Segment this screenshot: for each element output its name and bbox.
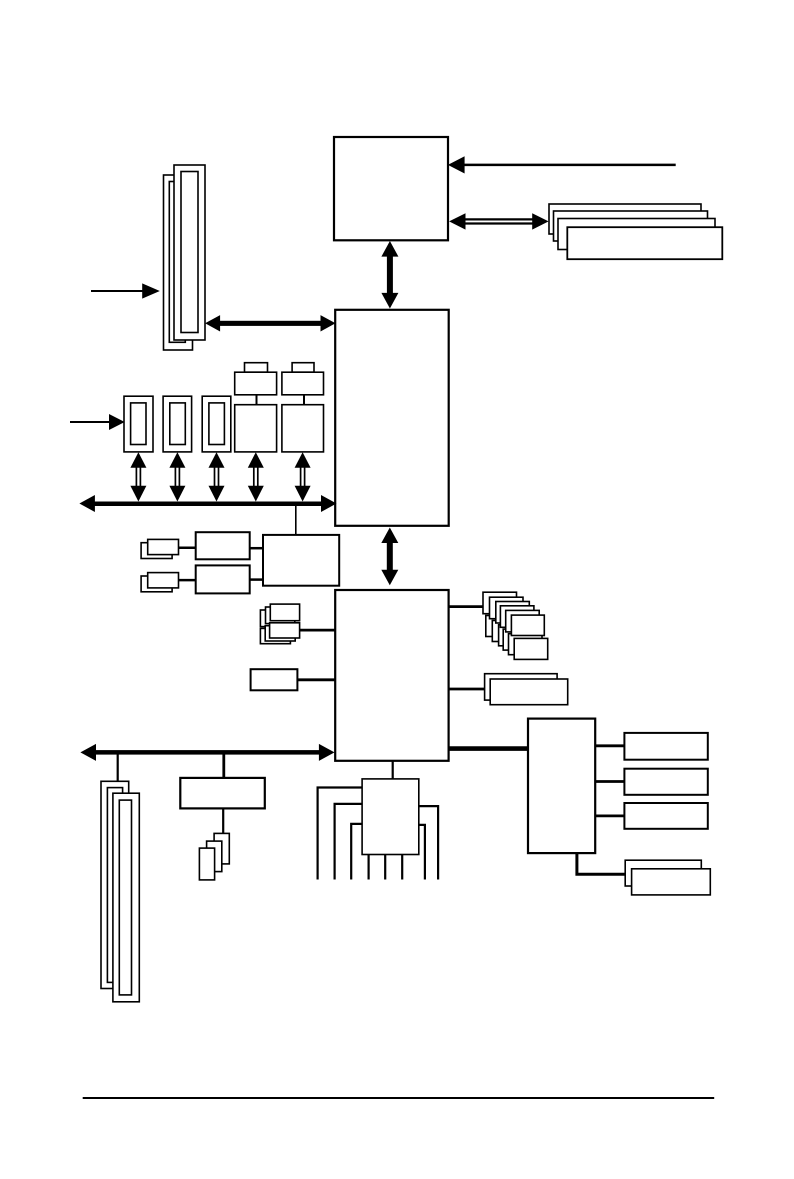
AGP slot pair (top left) [164, 165, 206, 350]
wire arrow into CPU right side [448, 156, 676, 173]
wire super IO to port 3 [595, 815, 624, 818]
wire codec to south bridge [297, 678, 335, 681]
wire connector1 to box A [179, 546, 196, 549]
wire IDE stack to south bridge [300, 629, 336, 632]
wire bus to ISA slots [117, 755, 119, 782]
dual header pair (back) [485, 674, 557, 700]
audio codec box [251, 669, 298, 690]
PCI slot 1 [124, 396, 153, 452]
wire BIOS box to chip stack [222, 808, 224, 833]
double arrow CPU to memory stack [449, 213, 548, 229]
connector module 4 (tab + box + box) [235, 363, 277, 452]
ISA bus double arrow [80, 744, 334, 761]
box B [196, 565, 250, 593]
small double arrow module4 to bus [248, 452, 264, 501]
wire super IO to port 1 [595, 744, 624, 747]
vertical double arrow north bridge to south bridge [381, 528, 398, 586]
small double arrow slot3 to bus [209, 452, 225, 501]
wire south bridge to dual header [449, 688, 485, 691]
wire bus to LAN block [295, 505, 297, 535]
small double arrow slot2 to bus [169, 452, 185, 501]
bottom port pair (front) [632, 869, 711, 895]
elbow wire super IO to bottom pair [577, 853, 632, 874]
keyboard controller box [362, 779, 419, 855]
LAN connector pair 1 (back) [141, 543, 172, 559]
LAN connector pair 1 (front) [148, 539, 179, 554]
wire box A to LAN box [250, 547, 263, 550]
pin wire 2 [384, 855, 386, 880]
south bridge box U3 [335, 590, 448, 761]
vertical double arrow CPU to north bridge [381, 241, 398, 309]
ISA slot pair (bottom left) [101, 781, 139, 1002]
left bracket wire 1 [318, 788, 363, 880]
dual header pair (front) [490, 679, 568, 705]
wire arrow into AGP slot [91, 283, 160, 298]
IDE stack group 1 (3 rects) [260, 604, 299, 627]
box A [196, 532, 250, 559]
footer rule [83, 1097, 715, 1099]
left bracket wire 2 [335, 804, 363, 880]
bottom port pair (back) [625, 860, 701, 886]
wire arrow into PCI slot row [70, 414, 125, 430]
chip stack (3 small rects) [199, 833, 229, 879]
wire south bridge to keyboard controller [392, 761, 394, 779]
port rect 3 [624, 803, 707, 829]
USB port stack (6 pairs) [483, 592, 548, 659]
pin wire 3 [401, 855, 403, 880]
PCI slot 2 [163, 396, 192, 452]
wire connector2 to box B [179, 579, 196, 582]
BIOS box [180, 778, 264, 809]
right bracket wire 2 [419, 825, 425, 880]
PCI bus double arrow [79, 495, 336, 512]
small double arrow slot1 to bus [130, 452, 146, 501]
wire super IO to port 2 [595, 780, 624, 783]
LAN controller box [263, 535, 339, 586]
wire box B to LAN box [250, 578, 263, 581]
port rect 2 [624, 769, 707, 795]
connector module 5 (tab + box + box) [282, 363, 324, 452]
thick wire south bridge to super IO [449, 746, 528, 751]
PCI slot 3 [202, 396, 231, 452]
cpu box U1 [334, 137, 448, 240]
memory module stack (4 rects) [549, 204, 722, 259]
right bracket wire 1 [419, 806, 438, 879]
port rect 1 [624, 733, 707, 760]
LAN connector pair 2 (front) [148, 573, 179, 588]
super IO box U4 [528, 719, 595, 854]
pin wire 1 [368, 855, 370, 880]
small double arrow module5 to bus [295, 452, 311, 501]
thick double arrow AGP to north bridge [205, 315, 335, 331]
left bracket wire 3 [351, 824, 362, 880]
wire south bridge to USB stack [449, 605, 483, 608]
LAN connector pair 2 (back) [141, 576, 172, 592]
north bridge box U2 [335, 310, 449, 526]
wire bus to BIOS box [222, 755, 225, 778]
IDE stack group 2 (3 rects) [260, 623, 299, 644]
